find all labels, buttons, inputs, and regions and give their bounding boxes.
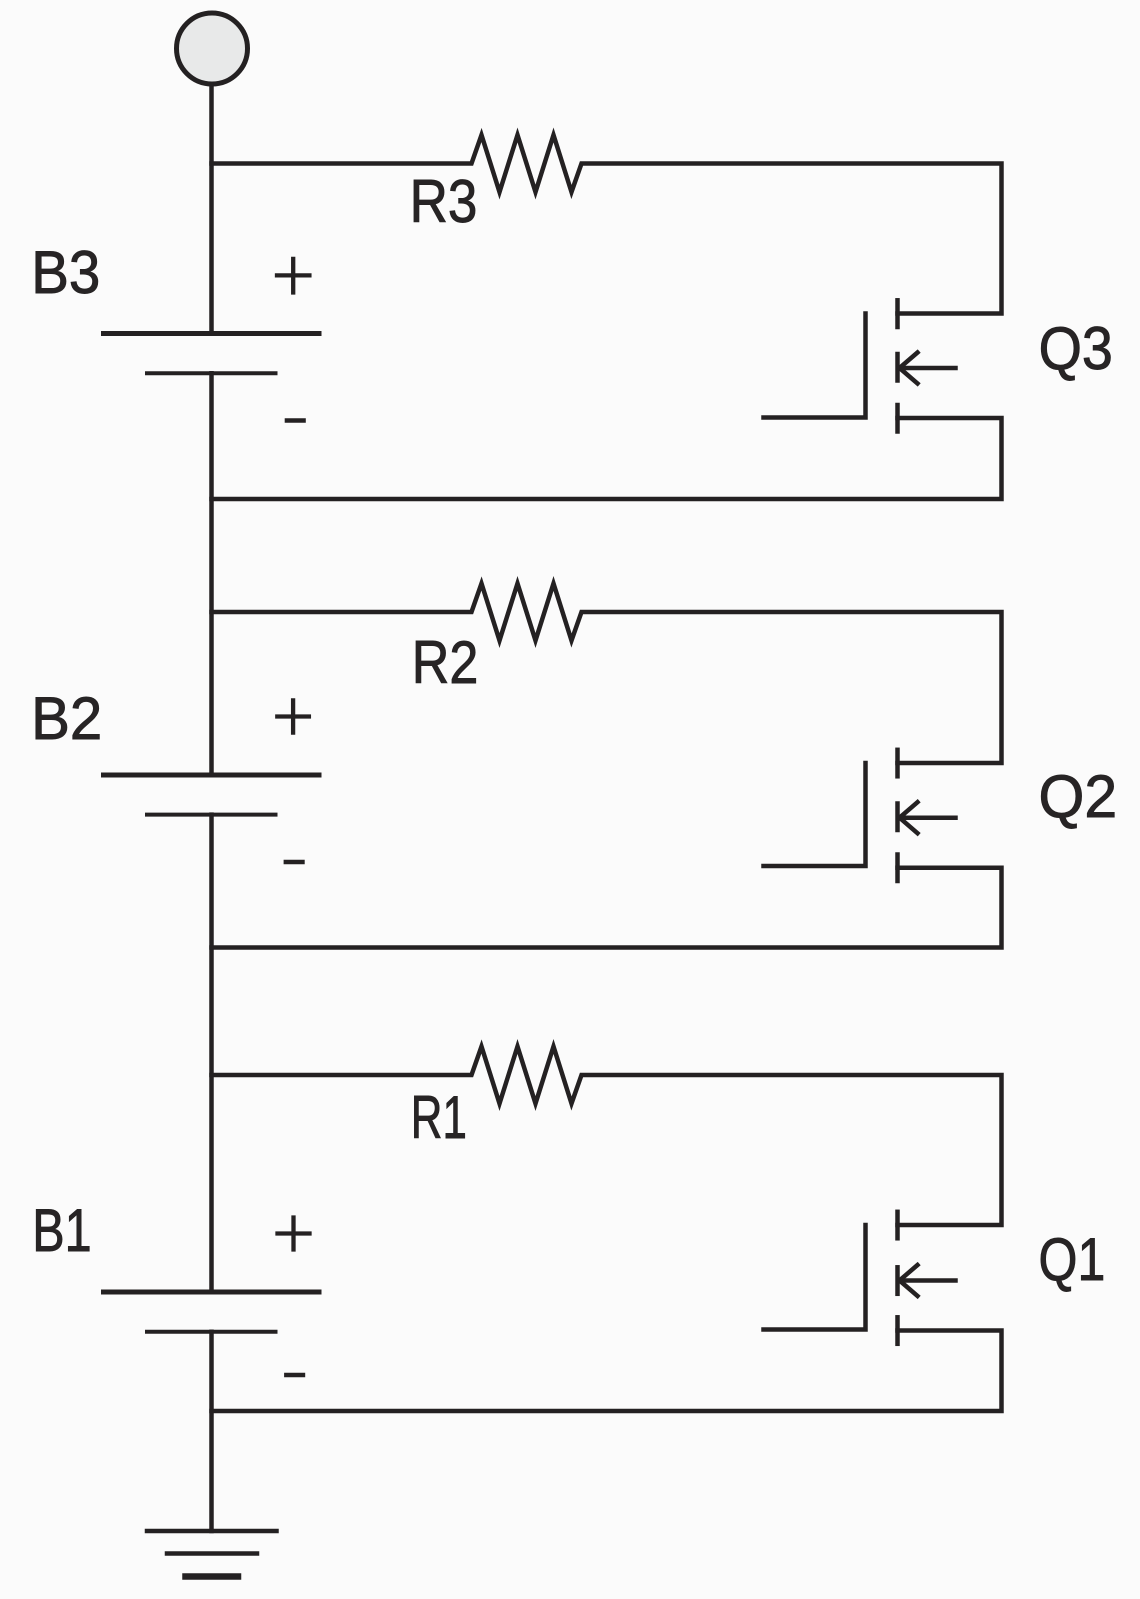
svg-text:B2: B2 bbox=[31, 684, 102, 752]
svg-text:Q3: Q3 bbox=[1039, 314, 1113, 382]
svg-text:B1: B1 bbox=[32, 1196, 91, 1264]
svg-text:Q1: Q1 bbox=[1039, 1225, 1106, 1293]
svg-text:B3: B3 bbox=[31, 238, 100, 306]
svg-text:Q2: Q2 bbox=[1039, 762, 1118, 830]
svg-text:R3: R3 bbox=[410, 167, 478, 235]
svg-text:R2: R2 bbox=[412, 628, 479, 696]
svg-text:R1: R1 bbox=[411, 1083, 467, 1151]
